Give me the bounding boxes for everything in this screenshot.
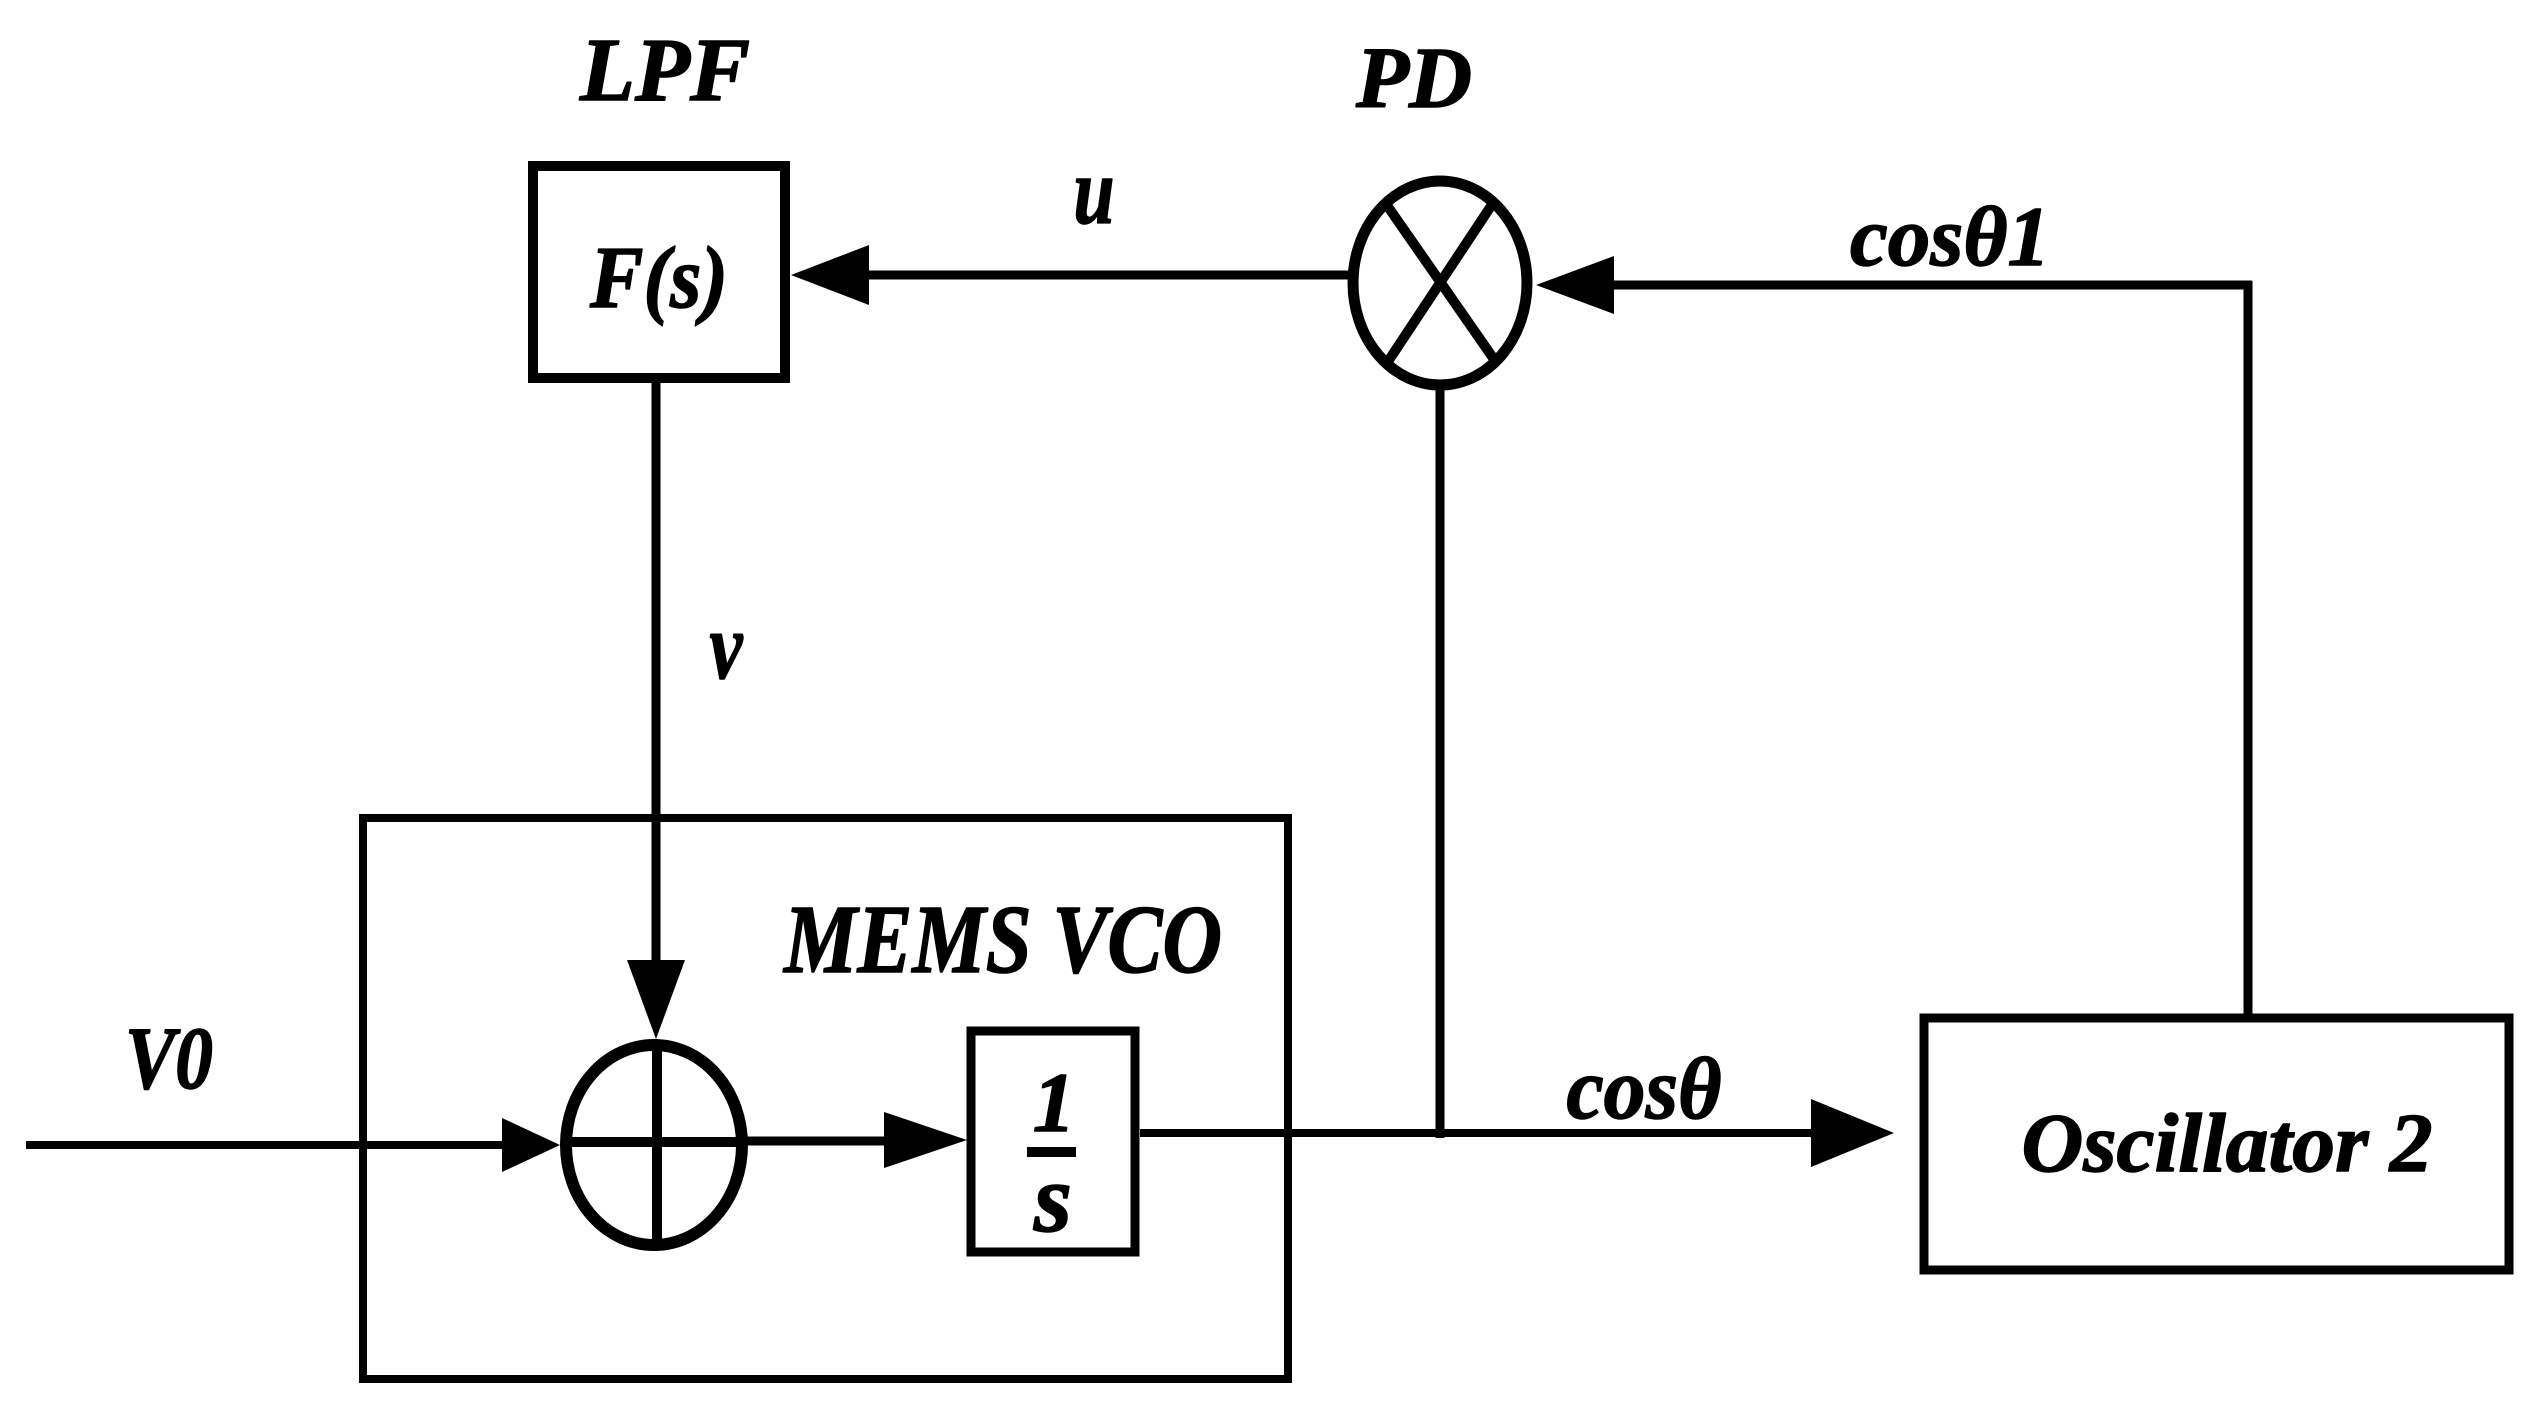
PD mixer circle U2	[1353, 181, 1527, 385]
arrowhead into Oscillator 2	[1811, 1099, 1894, 1167]
integrator fraction bar	[1027, 1147, 1076, 1157]
wire PD tap down to output line	[1436, 386, 1445, 1138]
wire summer to integrator	[744, 1137, 886, 1146]
svg-text:PD: PD	[1355, 29, 1472, 126]
svg-text:v: v	[710, 593, 744, 699]
arrowhead V0 into summer	[502, 1118, 560, 1172]
summer cross vertical	[652, 1042, 662, 1248]
arrowhead v into summer	[627, 960, 685, 1039]
integrator box 1/s	[971, 1031, 1135, 1252]
svg-text:u: u	[1074, 138, 1115, 244]
svg-text:V0: V0	[125, 1010, 213, 1108]
summer cross horizontal	[564, 1137, 744, 1147]
arrowhead into F(s)	[791, 245, 869, 305]
PD mixer X stroke 2	[1385, 200, 1495, 366]
wire integrator to Oscillator 2	[1140, 1129, 1815, 1137]
Oscillator 2 box	[1924, 1018, 2509, 1270]
arrowhead into PD	[1536, 256, 1614, 314]
svg-text:cosθ1: cosθ1	[1850, 190, 2050, 284]
MEMS VCO box	[363, 818, 1288, 1379]
svg-text:1: 1	[1033, 1056, 1076, 1150]
wire cos01 horizontal: feedback into PD	[1611, 281, 2252, 290]
LPF box F(s)	[533, 166, 785, 378]
svg-text:s: s	[1033, 1145, 1072, 1253]
svg-text:Oscillator 2: Oscillator 2	[2022, 1097, 2433, 1190]
wire cos01 vertical: down to Oscillator 2	[2244, 281, 2253, 1018]
svg-text:MEMS VCO: MEMS VCO	[782, 886, 1222, 993]
summer circle S1	[566, 1045, 742, 1245]
wire v: F(s) down to summer	[652, 383, 661, 962]
wire V0 input	[26, 1141, 505, 1149]
svg-text:cosθ: cosθ	[1567, 1041, 1722, 1138]
svg-text:F(s): F(s)	[589, 230, 728, 327]
svg-text:LPF: LPF	[579, 21, 750, 120]
arrowhead into integrator	[884, 1112, 967, 1168]
wire u: PD to F(s)	[866, 271, 1352, 280]
PD mixer X stroke 1	[1384, 201, 1498, 365]
